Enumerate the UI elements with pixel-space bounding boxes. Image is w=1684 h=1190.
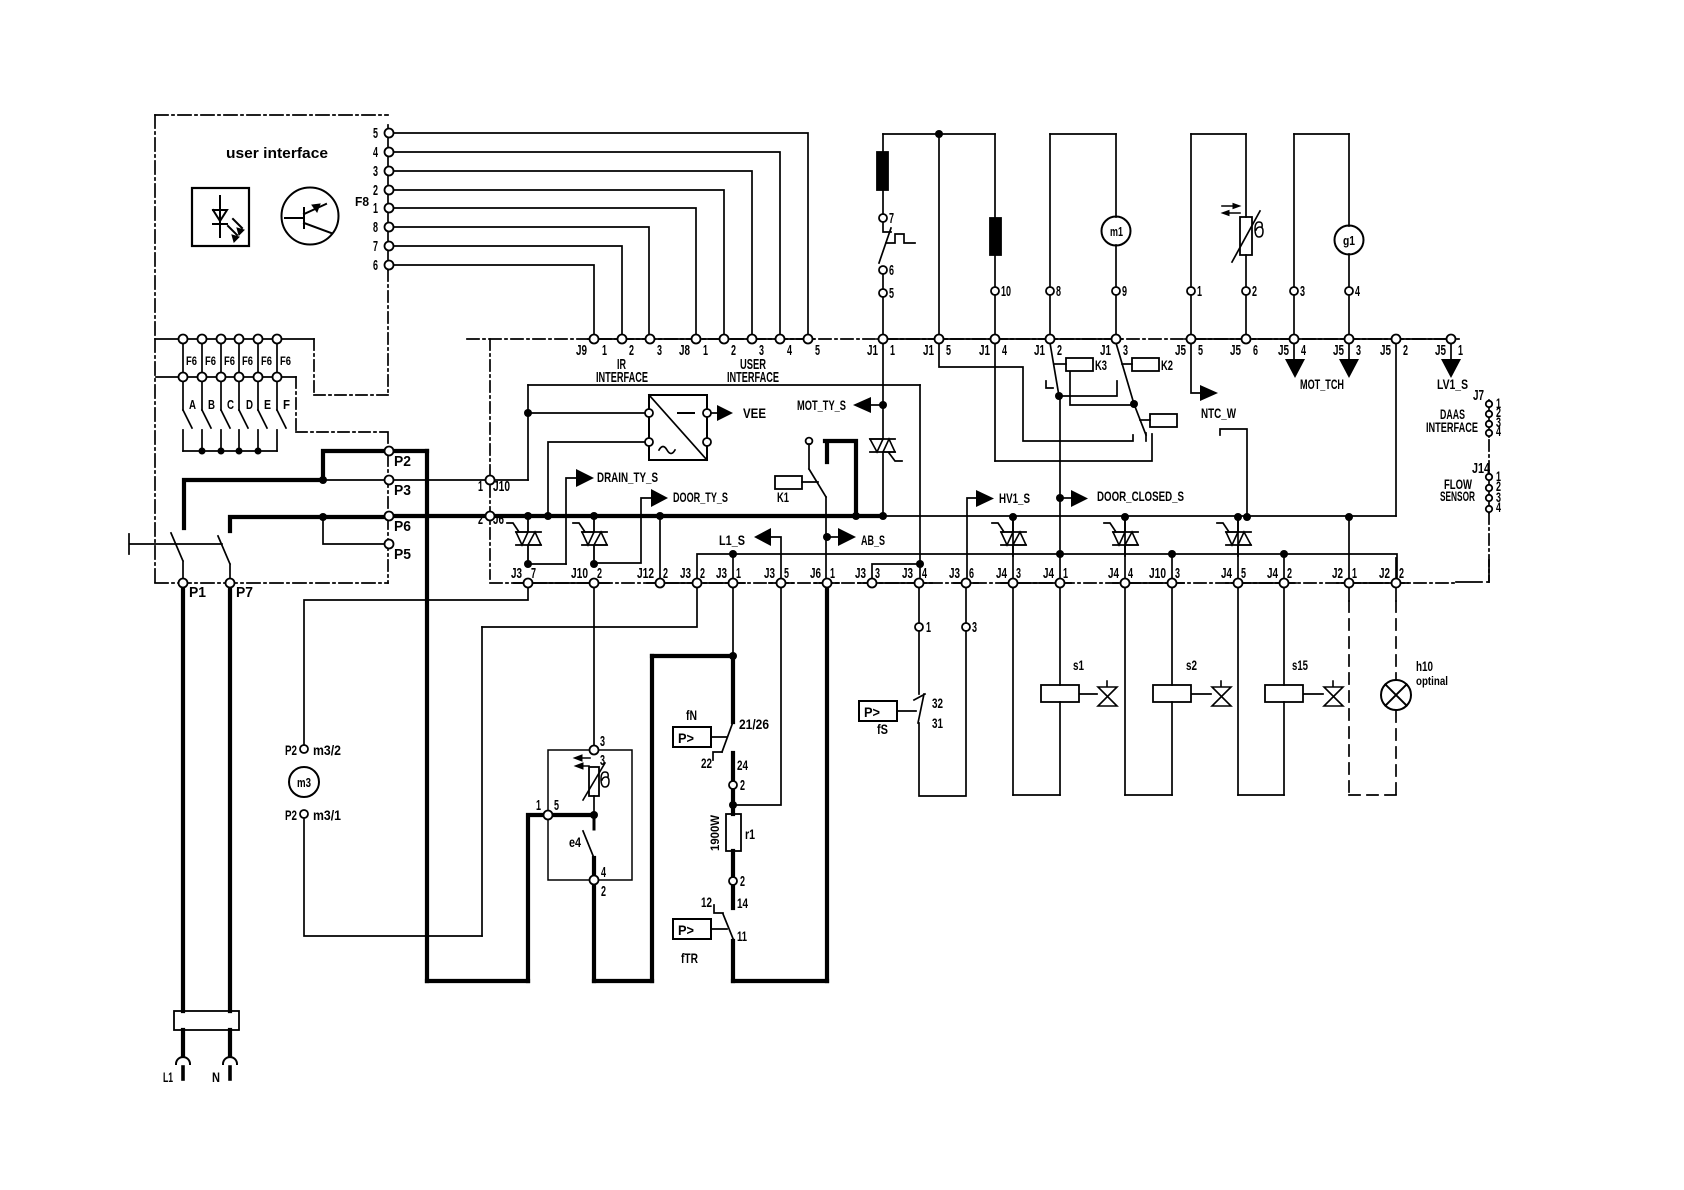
wire coil3 lead xyxy=(1140,419,1150,421)
wire P2 loop left side xyxy=(323,451,384,480)
wire h10 bottom U dashed xyxy=(1349,794,1396,796)
svg-text:12: 12 xyxy=(701,894,712,910)
valve symbol s2 xyxy=(1212,681,1231,706)
wire e4 movable contact stub xyxy=(593,817,596,829)
svg-text:INTERFACE: INTERFACE xyxy=(596,369,648,386)
svg-text:1: 1 xyxy=(830,565,835,582)
svg-text:J9: J9 xyxy=(576,342,587,359)
wire fS bottom U xyxy=(919,631,966,796)
wire mains lead L1 to plug xyxy=(181,1030,185,1056)
wire J14 connector spine xyxy=(1488,473,1490,513)
fN pressure switch box xyxy=(673,727,711,747)
svg-text:7: 7 xyxy=(889,210,894,227)
fuse F6 column F wire xyxy=(276,343,278,410)
svg-text:J1: J1 xyxy=(867,342,878,359)
wire F8 pin1 xyxy=(393,208,696,335)
row B dash-dot line xyxy=(490,582,1456,584)
wire J2/2 rail solid part xyxy=(1395,558,1397,601)
svg-text:K2: K2 xyxy=(1161,357,1173,373)
svg-text:1: 1 xyxy=(736,565,741,582)
relay contact3 lever xyxy=(1134,404,1146,435)
svg-text:E: E xyxy=(264,397,271,412)
relay K2 contact lever xyxy=(1116,343,1134,404)
svg-text:P7: P7 xyxy=(236,584,253,601)
wire P3 feed to board xyxy=(394,479,528,481)
wire J5/6 rail upper xyxy=(1245,134,1247,335)
motor m1 circle xyxy=(1102,217,1131,246)
svg-text:21/26: 21/26 xyxy=(739,716,769,732)
svg-text:J5: J5 xyxy=(1230,342,1241,359)
svg-text:6: 6 xyxy=(889,262,894,279)
wire below contact 2 to r1 junction xyxy=(731,789,735,801)
svg-text:J4: J4 xyxy=(1221,565,1232,582)
svg-text:4: 4 xyxy=(1002,342,1007,359)
svg-text:J4: J4 xyxy=(1267,565,1278,582)
wire main live bus thick xyxy=(394,514,884,518)
contact3 fixed bracket xyxy=(1145,433,1147,441)
svg-text:F: F xyxy=(283,397,290,412)
svg-text:14: 14 xyxy=(737,895,748,911)
svg-text:DOOR_CLOSED_S: DOOR_CLOSED_S xyxy=(1097,488,1184,504)
svg-text:N: N xyxy=(212,1069,220,1085)
wire P3 thin to pin xyxy=(323,479,384,481)
wire K3 contact to K2 bracket xyxy=(1059,381,1117,396)
wire g1 loop top xyxy=(1294,133,1349,135)
wire P2 right to long drop xyxy=(394,449,427,453)
board top edge wire xyxy=(528,384,920,386)
arrow MOT_TCH right xyxy=(1339,359,1359,378)
wire J5/3 arrow stub xyxy=(1348,343,1350,359)
junction dots keyboard common xyxy=(199,448,206,455)
wire fS contact 3 to J3/6 xyxy=(965,587,967,623)
svg-text:e4: e4 xyxy=(569,834,581,850)
wire K3 coil return xyxy=(1070,372,1134,405)
junction dots on live line right xyxy=(1009,513,1017,521)
wire transformer out to VEE xyxy=(712,412,717,414)
svg-text:P>: P> xyxy=(864,704,880,720)
svg-text:8: 8 xyxy=(1056,283,1061,300)
svg-text:7: 7 xyxy=(373,238,378,255)
keyboard common line xyxy=(183,450,277,452)
wire h10 right rail dashed xyxy=(1395,601,1397,795)
wire J5/5 rail upper xyxy=(1190,134,1192,335)
svg-text:4: 4 xyxy=(1496,499,1501,515)
fN contact 21/26 lever xyxy=(722,722,733,752)
svg-text:3: 3 xyxy=(373,163,378,180)
wire thick U3 bottom xyxy=(594,979,827,983)
svg-text:J10: J10 xyxy=(1149,565,1166,582)
mains switch pole1 lever xyxy=(171,533,183,579)
wire 21/26 contact lead xyxy=(731,656,735,722)
wire NTC loop top xyxy=(1191,133,1246,135)
e9 regulator body xyxy=(589,767,599,796)
arrow NTC_W xyxy=(1200,385,1218,401)
transformer AC mark xyxy=(659,447,675,454)
svg-text:J14: J14 xyxy=(1472,460,1490,477)
svg-text:J5: J5 xyxy=(1175,342,1186,359)
wire transformer primary bottom xyxy=(548,442,644,516)
svg-text:h10: h10 xyxy=(1416,658,1433,674)
svg-text:J10: J10 xyxy=(571,565,588,582)
wire J3/1 stub to line2 xyxy=(732,554,734,579)
svg-text:1: 1 xyxy=(1197,283,1202,300)
svg-text:6: 6 xyxy=(373,257,378,274)
svg-text:1: 1 xyxy=(890,342,895,359)
wire thick 1/5 to e4 junction xyxy=(552,813,594,817)
connector circles row A J5 xyxy=(1187,335,1196,344)
wire F8 pin4 xyxy=(393,152,780,335)
svg-text:1: 1 xyxy=(926,619,931,636)
wire mains lead below P1 xyxy=(181,587,185,1011)
svg-text:NTC_W: NTC_W xyxy=(1201,405,1237,421)
svg-text:J5: J5 xyxy=(1380,342,1391,359)
mains switch actuator bar xyxy=(129,534,222,554)
wire thick U1 right riser to contact 1/5 xyxy=(528,815,542,981)
wire L1_S elbow xyxy=(771,537,781,579)
svg-text:24: 24 xyxy=(737,757,748,773)
svg-text:J3: J3 xyxy=(949,565,960,582)
svg-text:J3: J3 xyxy=(716,565,727,582)
svg-text:L1_S: L1_S xyxy=(719,532,745,548)
wire J1/2 rail upper xyxy=(1049,134,1051,335)
svg-text:5: 5 xyxy=(784,565,789,582)
fTR contact 12 bracket xyxy=(714,905,723,913)
wire NTC_W tap xyxy=(1191,343,1200,393)
svg-text:LV1_S: LV1_S xyxy=(1437,376,1468,392)
wire s15 left rail J4/5 xyxy=(1237,521,1239,795)
switch E lever xyxy=(258,410,267,451)
svg-text:2: 2 xyxy=(373,182,378,199)
fTR lever xyxy=(723,914,734,941)
svg-text:1900W: 1900W xyxy=(708,814,722,851)
inner border step to P2 xyxy=(296,377,388,446)
svg-text:J6: J6 xyxy=(810,565,821,582)
wire fN P-switch to lever xyxy=(711,736,727,738)
svg-text:22: 22 xyxy=(701,755,712,771)
wire contact5 to row A xyxy=(882,297,884,335)
junction dots on line2 xyxy=(729,550,737,558)
wire J3/1 drop to heater xyxy=(732,587,734,656)
connector circle e4 pin 4/2 xyxy=(590,876,599,885)
wire s1 bottom U xyxy=(1013,794,1060,796)
switch B lever xyxy=(202,410,211,451)
svg-text:P2: P2 xyxy=(285,742,297,758)
wire J7 connector spine xyxy=(1488,400,1490,437)
relay K3 contact lever xyxy=(1050,343,1059,396)
user interface box top border xyxy=(155,114,388,116)
wire s1 coil rail J4/1 xyxy=(1059,587,1061,795)
svg-text:J3: J3 xyxy=(902,565,913,582)
wire thick U2 left riser xyxy=(650,656,654,981)
svg-text:4: 4 xyxy=(922,565,927,582)
svg-text:F6: F6 xyxy=(242,354,253,368)
wire s2 coil to valve xyxy=(1192,693,1211,695)
svg-text:J10: J10 xyxy=(493,478,510,495)
junction dot transformer feed xyxy=(524,409,532,417)
plug contact L1 xyxy=(176,1057,190,1064)
wire s15 coil rail J4/2 xyxy=(1283,554,1285,795)
valve coil s2 xyxy=(1153,685,1191,702)
svg-text:s1: s1 xyxy=(1073,657,1084,673)
wire F8 pin6 xyxy=(393,265,594,335)
wire s2 coil rail J10/3 xyxy=(1171,554,1173,795)
wire r1 bottom lead xyxy=(731,851,735,877)
switch A lever xyxy=(183,410,192,451)
connector circle e4 pin 1/5 xyxy=(544,811,553,820)
svg-text:C: C xyxy=(227,397,234,412)
valve coil s1 xyxy=(1041,685,1079,702)
wire m3 top to J3/7 xyxy=(304,587,528,745)
switch D lever xyxy=(239,410,248,451)
svg-text:J3: J3 xyxy=(855,565,866,582)
connector circles board edge J10/1 J6/2 xyxy=(486,476,495,485)
wire J1/5 to NC bracket xyxy=(939,343,1133,441)
fuse F6 column A wire xyxy=(182,343,184,410)
junction dot P6/P5 xyxy=(319,513,327,521)
svg-text:5: 5 xyxy=(1198,342,1203,359)
svg-text:F6: F6 xyxy=(261,354,272,368)
arrow VEE xyxy=(717,405,733,421)
wire J1/1 rail row A to triac xyxy=(882,343,884,439)
pressostat g1 circle xyxy=(1335,226,1364,255)
svg-text:J5: J5 xyxy=(1278,342,1289,359)
svg-text:P1: P1 xyxy=(189,584,206,601)
wire m3 return riser xyxy=(481,627,483,936)
wire s2 left rail J4/4 xyxy=(1124,521,1126,795)
svg-text:D: D xyxy=(246,397,253,412)
svg-text:A: A xyxy=(189,397,196,412)
valve coil s15 xyxy=(1265,685,1303,702)
board left boundary dash-dot x=490 xyxy=(489,339,491,579)
wire contact10 to row A xyxy=(994,295,996,335)
wire J10/2 drop to e9 xyxy=(593,587,595,746)
svg-text:5: 5 xyxy=(815,342,820,359)
wire F8 pin3 xyxy=(393,171,752,335)
fTR pressure switch box xyxy=(673,919,711,939)
svg-text:4: 4 xyxy=(601,864,606,881)
svg-text:3: 3 xyxy=(1123,342,1128,359)
wire fTR P-switch to lever xyxy=(711,928,727,930)
svg-text:J2: J2 xyxy=(1332,565,1343,582)
wire J5/1 arrow stub xyxy=(1450,343,1452,359)
wire triac1 gate elbow xyxy=(528,563,566,565)
svg-text:K1: K1 xyxy=(777,489,789,505)
svg-text:VEE: VEE xyxy=(743,405,766,421)
junction dots triac outputs xyxy=(524,560,532,568)
svg-text:J4: J4 xyxy=(1043,565,1054,582)
svg-text:P6: P6 xyxy=(394,518,411,535)
K1 coil box xyxy=(775,476,802,489)
svg-text:fN: fN xyxy=(686,707,697,723)
svg-text:9: 9 xyxy=(1122,283,1127,300)
wire J5/2 drop to bus xyxy=(1395,343,1397,516)
svg-text:r1: r1 xyxy=(745,826,755,842)
wire fuse f2 to contact 10 xyxy=(994,255,996,287)
wire P5 elbow xyxy=(323,517,384,544)
svg-text:J3: J3 xyxy=(680,565,691,582)
K1 pivot stem and lever xyxy=(809,444,826,497)
lamp h10 xyxy=(1381,680,1411,710)
svg-text:J5: J5 xyxy=(1435,342,1446,359)
svg-text:2: 2 xyxy=(1403,342,1408,359)
wire MOT triac to bus xyxy=(882,452,884,514)
connector circles F8 pins xyxy=(385,129,394,138)
svg-text:2: 2 xyxy=(629,342,634,359)
svg-text:3: 3 xyxy=(1356,342,1361,359)
LED symbol xyxy=(213,196,227,237)
wire 14 lead xyxy=(731,885,735,908)
svg-text:F6: F6 xyxy=(224,354,235,368)
svg-text:3: 3 xyxy=(875,565,880,582)
user interface box left border xyxy=(154,115,156,339)
svg-text:8: 8 xyxy=(373,219,378,236)
connector circles row B xyxy=(524,579,533,588)
row A solid segments xyxy=(588,338,1455,340)
wire m3 return to J3/2 xyxy=(482,587,697,627)
svg-text:5: 5 xyxy=(373,125,378,142)
arrow LV1_S xyxy=(1441,359,1461,378)
right border corner to row B xyxy=(1456,560,1489,582)
connector circle e9 pin3 xyxy=(590,746,599,755)
wire AB_S tap xyxy=(827,536,838,538)
junction dot DOOR_CLOSED_S xyxy=(1056,494,1064,502)
svg-text:3: 3 xyxy=(600,733,605,750)
wire HV1_S tap xyxy=(967,498,976,579)
NTC theta mark xyxy=(1255,222,1263,237)
wire r1 junction to J3/5 xyxy=(733,587,781,805)
svg-text:2: 2 xyxy=(740,777,745,794)
transformer pin circles xyxy=(645,409,653,417)
svg-text:J4: J4 xyxy=(996,565,1007,582)
e4 e9 enclosure box xyxy=(548,750,632,880)
relay aux coil box xyxy=(1150,414,1177,427)
svg-text:fTR: fTR xyxy=(681,950,698,966)
fuse f2 body xyxy=(990,218,1001,255)
svg-text:P2: P2 xyxy=(394,453,411,470)
connector circles F6 bottom row xyxy=(179,373,188,382)
wire h10 left rail dashed xyxy=(1348,601,1350,795)
wire P6 thick from mains switch pole2 xyxy=(230,517,384,531)
triac J10/2 xyxy=(582,520,607,560)
fS lever and tick xyxy=(914,694,925,723)
junction dot heater feed xyxy=(729,652,737,660)
svg-text:s15: s15 xyxy=(1292,657,1308,673)
junction dot AB_S xyxy=(823,533,831,541)
e4 lever xyxy=(583,831,594,858)
wire J6/1 long riser thick xyxy=(825,587,829,981)
P column border xyxy=(387,455,389,583)
svg-text:2: 2 xyxy=(601,883,606,900)
wire line2 neutral return xyxy=(697,554,1397,579)
e9 adjustment arrows xyxy=(578,758,590,766)
junction dot e4 node xyxy=(590,811,598,819)
svg-text:1: 1 xyxy=(373,200,378,217)
wire contact6 to contact5 xyxy=(882,274,884,289)
svg-text:F6: F6 xyxy=(186,354,197,368)
wire J1/5 rail xyxy=(938,134,940,335)
svg-text:1: 1 xyxy=(478,478,483,495)
F6 top bus line xyxy=(155,338,314,340)
svg-text:4: 4 xyxy=(1301,342,1306,359)
svg-text:J3: J3 xyxy=(511,565,522,582)
triac MOT J1/1 xyxy=(870,439,895,452)
switch F lever xyxy=(277,410,286,451)
svg-text:1: 1 xyxy=(1352,565,1357,582)
wire J1/3 rail upper xyxy=(1115,134,1117,335)
connector circles J7 DAAS xyxy=(1486,401,1492,407)
connector circles fS chain xyxy=(915,623,923,631)
svg-text:2: 2 xyxy=(700,565,705,582)
connector circles top section xyxy=(879,214,887,222)
arrow MOT_TY_S xyxy=(853,397,871,413)
wire thick riser x=427 P2 down xyxy=(425,451,429,981)
svg-text:MOT_TY_S: MOT_TY_S xyxy=(797,397,846,413)
wire mains lead N to plug xyxy=(228,1030,232,1056)
svg-text:F6: F6 xyxy=(205,354,216,368)
svg-text:P>: P> xyxy=(678,922,694,938)
svg-text:4: 4 xyxy=(373,144,378,161)
switch C lever xyxy=(221,410,230,451)
LED emission arrows xyxy=(228,219,242,235)
wire fS J3/4 drop xyxy=(918,587,920,623)
wire board riser x=528 xyxy=(527,385,529,480)
svg-text:K3: K3 xyxy=(1095,357,1107,373)
svg-text:3: 3 xyxy=(1016,565,1021,582)
svg-text:7: 7 xyxy=(531,565,536,582)
svg-text:m3: m3 xyxy=(297,775,311,790)
svg-text:4: 4 xyxy=(1496,423,1501,439)
wire fS contact 1 to lever xyxy=(918,631,920,694)
svg-text:B: B xyxy=(208,397,215,412)
arrow AB_S xyxy=(838,528,856,546)
svg-text:3: 3 xyxy=(972,619,977,636)
arrow DRAIN_TY_S xyxy=(576,469,594,487)
triac J4/4 xyxy=(1113,521,1138,556)
triac J4/5 xyxy=(1226,521,1251,556)
plug contact N xyxy=(223,1057,237,1064)
wire J1/4 rail upper xyxy=(994,134,996,218)
wire s1 left rail J4/3 xyxy=(1012,521,1014,795)
arrow DOOR_TY_S xyxy=(651,489,668,507)
svg-text:MOT_TCH: MOT_TCH xyxy=(1300,376,1344,392)
wire below fTR lever xyxy=(731,941,735,981)
svg-text:F6: F6 xyxy=(280,354,291,368)
wire contact3 to J1/4 xyxy=(995,434,1152,461)
svg-text:s2: s2 xyxy=(1186,657,1197,673)
wire mains lead below P7 xyxy=(228,587,232,1011)
svg-text:1: 1 xyxy=(703,342,708,359)
junction dots on live bus xyxy=(524,512,532,520)
junction dot K3 contact xyxy=(1055,392,1063,400)
svg-text:4: 4 xyxy=(787,342,792,359)
NTC arrows xyxy=(1222,206,1240,213)
svg-text:J4: J4 xyxy=(1108,565,1119,582)
fuse F6 column D wire xyxy=(238,343,240,410)
bottom border with P1 P7 xyxy=(155,582,388,584)
svg-text:fS: fS xyxy=(877,721,888,737)
e9 regulator bottom lead xyxy=(593,796,595,812)
row B solid segments xyxy=(514,582,1408,584)
junction dot r1 top xyxy=(729,801,737,809)
connector circles row A J9 J8 xyxy=(590,335,599,344)
wire DRAIN_TY_S drop xyxy=(566,478,576,564)
F6 bottom bus line xyxy=(156,376,296,378)
wire fuse f1 top lead xyxy=(882,134,884,152)
right border dash-dot x=1489 xyxy=(1488,440,1490,582)
fN contact 22 bracket xyxy=(713,752,722,760)
wire J1/4 rail lower xyxy=(994,343,996,461)
svg-text:3: 3 xyxy=(1300,283,1305,300)
